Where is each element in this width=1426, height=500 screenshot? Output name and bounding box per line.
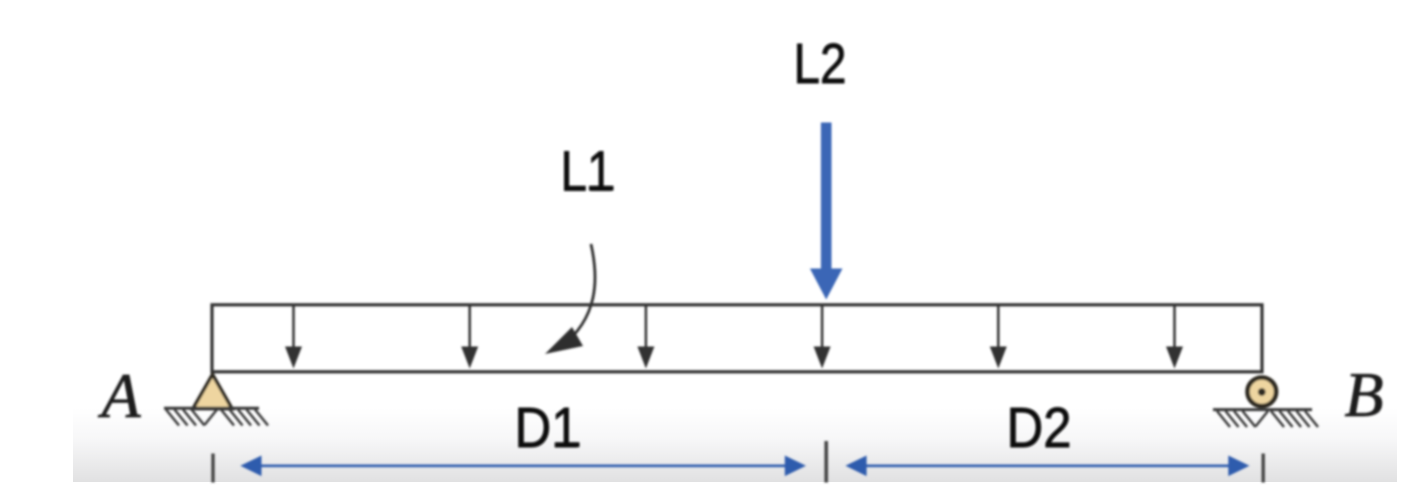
svg-text:D2: D2 bbox=[1007, 396, 1072, 460]
svg-text:A: A bbox=[97, 360, 141, 431]
svg-text:B: B bbox=[1344, 359, 1383, 430]
svg-text:L2: L2 bbox=[794, 32, 847, 96]
svg-text:D1: D1 bbox=[515, 396, 580, 460]
svg-text:L1: L1 bbox=[561, 140, 614, 204]
